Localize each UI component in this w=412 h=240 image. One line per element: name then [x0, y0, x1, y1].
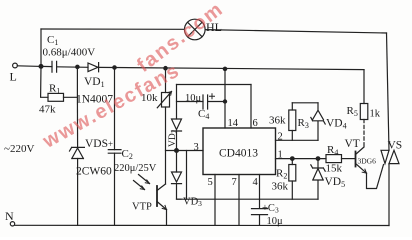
- zener VDS: [70, 147, 85, 158]
- node junction top-left: [39, 65, 43, 69]
- svg-text:6: 6: [253, 118, 258, 129]
- label pin14: [228, 118, 239, 129]
- wire pot upper: [165, 68, 167, 92]
- wire pin3 horizontal: [166, 150, 204, 152]
- svg-text:36k: 36k: [272, 181, 289, 193]
- capacitor C1: [52, 61, 57, 72]
- label pin3: [194, 142, 199, 153]
- svg-text:1: 1: [278, 150, 283, 161]
- label 1k: [370, 109, 381, 120]
- wire riser x186: [186, 151, 188, 200]
- svg-text:VS: VS: [388, 140, 403, 152]
- label 36k R2: [272, 181, 289, 193]
- label VDS type: [76, 166, 112, 178]
- label C4: [198, 108, 209, 121]
- wire C4 right: [208, 101, 225, 103]
- label VD1: [84, 76, 105, 89]
- wire pin14 vertical: [224, 69, 226, 128]
- label VDS: [85, 138, 108, 150]
- svg-text:~220V: ~220V: [4, 143, 34, 155]
- label C1: [47, 34, 58, 47]
- potentiometer 10k: [157, 92, 171, 108]
- wire C2 upper: [114, 68, 116, 150]
- node rail/C2: [113, 66, 116, 69]
- wire main rail seg2: [57, 66, 88, 69]
- svg-text:0.68μ/400V: 0.68μ/400V: [43, 47, 96, 59]
- label CD4013: [219, 148, 258, 160]
- wire VD2 to junction: [176, 131, 178, 151]
- svg-text:3: 3: [194, 142, 199, 153]
- op-amp U1 CD4013: [203, 128, 276, 175]
- terminal N: [10, 222, 14, 226]
- label R1 value: [39, 104, 56, 116]
- phototransistor VTP: [157, 184, 167, 225]
- diode VD2: [172, 119, 182, 131]
- node rail/pin14: [223, 67, 226, 70]
- svg-text:R1: R1: [49, 83, 60, 96]
- svg-text:+C3: +C3: [262, 203, 279, 215]
- svg-text:3DG6: 3DG6: [358, 157, 377, 166]
- svg-text:R5: R5: [347, 105, 358, 118]
- wire R5 to collector dashed: [363, 120, 365, 148]
- label pin1: [278, 150, 283, 161]
- svg-text:220μ/25V: 220μ/25V: [114, 163, 157, 174]
- svg-text:14: 14: [228, 118, 239, 129]
- wire top line y84: [177, 84, 252, 86]
- thyristor VS: [381, 150, 399, 163]
- svg-text:4: 4: [253, 177, 259, 188]
- wire pin1 line: [276, 158, 327, 160]
- svg-text:+: +: [108, 139, 113, 149]
- wire pot lower / collector riser: [165, 107, 167, 184]
- label ~220V: [4, 143, 34, 155]
- svg-text:7: 7: [232, 177, 237, 188]
- zener VD5: [311, 159, 325, 200]
- wire VD2 upper lead: [176, 85, 178, 120]
- svg-text:10μ: 10μ: [267, 216, 284, 227]
- zener VD4: [311, 103, 325, 141]
- wire C4 left: [177, 101, 204, 103]
- diode VD1: [88, 63, 99, 72]
- wire R4 to base: [342, 158, 356, 160]
- svg-text:C1: C1: [47, 34, 58, 47]
- svg-text:R4: R4: [327, 144, 338, 157]
- label 36k R3: [269, 115, 286, 127]
- resistor R3: [289, 110, 296, 131]
- label C2 plus: [108, 139, 113, 149]
- resistor R2: [289, 165, 296, 182]
- wire main rail seg1: [41, 65, 52, 67]
- label R5: [347, 105, 358, 118]
- light arrow 2: [134, 181, 145, 190]
- wire bottom rail: [15, 224, 389, 226]
- label VD1 type: [76, 94, 113, 106]
- label C2: [122, 148, 133, 161]
- svg-text:R2: R2: [276, 168, 287, 181]
- wire top rail left of lamp: [41, 28, 185, 30]
- svg-text:CD4013: CD4013: [219, 148, 258, 160]
- label R2: [276, 168, 287, 181]
- svg-text:VD3: VD3: [183, 197, 202, 209]
- wire C2 lower: [114, 153, 116, 225]
- label C3: [262, 203, 279, 215]
- capacitor C3: [252, 199, 268, 225]
- wire right rail lower: [388, 164, 390, 226]
- wire R2 top lead: [291, 159, 293, 165]
- wire R1 branch left: [41, 66, 48, 97]
- svg-text:2: 2: [278, 132, 283, 143]
- svg-text:47k: 47k: [39, 104, 56, 116]
- svg-text:R3: R3: [298, 117, 309, 130]
- svg-text:VTP: VTP: [132, 202, 152, 213]
- svg-text:5: 5: [208, 177, 213, 188]
- svg-text:VD1: VD1: [84, 76, 105, 89]
- resistor R1: [48, 93, 64, 101]
- capacitor C4: [203, 94, 215, 109]
- wire VD3 to bus: [177, 184, 182, 200]
- label R3: [298, 117, 309, 130]
- wire right rail upper: [387, 33, 390, 150]
- wire pin6 vertical: [250, 85, 252, 129]
- svg-text:L: L: [10, 70, 17, 84]
- wire pin5 stub: [214, 175, 216, 226]
- svg-text:36k: 36k: [269, 115, 286, 127]
- label C3 value: [267, 216, 284, 227]
- label 10u C4: [185, 93, 202, 104]
- label 10k: [141, 92, 158, 104]
- lamp HL: [185, 19, 206, 40]
- svg-text:VDS: VDS: [85, 138, 108, 150]
- wire main rail seg3: [99, 67, 364, 69]
- terminal L: [13, 63, 18, 68]
- node C4/pin14: [223, 100, 226, 103]
- label pin6: [253, 118, 258, 129]
- light arrow 1: [139, 175, 150, 184]
- wire L to junction: [17, 65, 41, 68]
- svg-text:C4: C4: [198, 108, 209, 121]
- label R1: [49, 83, 60, 96]
- label C1 value: [43, 47, 96, 59]
- label L: [10, 70, 17, 84]
- svg-text:VD5: VD5: [325, 176, 346, 189]
- wire junction to VD3: [176, 151, 178, 173]
- label VD4: [326, 118, 347, 131]
- label HL: [206, 20, 222, 34]
- resistor R4: [326, 155, 342, 163]
- svg-text:VD2: VD2: [168, 129, 179, 147]
- svg-text:15k: 15k: [326, 163, 343, 175]
- capacitor C2: [108, 150, 121, 154]
- label VTP: [132, 202, 152, 213]
- label VT type: [358, 157, 377, 166]
- wire R5 drop from rail: [363, 70, 365, 104]
- wire top rail right of lamp: [205, 30, 386, 33]
- label pin4: [253, 177, 259, 188]
- wire VDS branch lower: [77, 159, 79, 226]
- label VS: [388, 140, 403, 152]
- node pin1/R2: [291, 157, 295, 161]
- label R4: [327, 144, 338, 157]
- wire emitter to gate: [367, 165, 384, 189]
- label VD3: [183, 197, 202, 209]
- svg-text:10μ: 10μ: [185, 93, 202, 104]
- svg-text:C2: C2: [122, 148, 133, 161]
- node pin1/VD5: [316, 157, 320, 161]
- label C2 value: [114, 163, 157, 174]
- svg-text:1k: 1k: [370, 109, 381, 120]
- wire R2 bottom lead: [291, 181, 293, 199]
- wire VDS branch upper: [76, 97, 78, 147]
- svg-text:VD4: VD4: [326, 118, 347, 131]
- label VD5: [325, 176, 346, 189]
- svg-text:2CW60: 2CW60: [76, 166, 112, 178]
- diode VD3: [172, 172, 182, 184]
- label VD2 rotated: [168, 129, 179, 147]
- wire pin2 line: [276, 139, 319, 141]
- label 15k: [326, 163, 343, 175]
- transistor VT: [356, 147, 367, 173]
- watermark fans.com: [133, 0, 228, 78]
- label N: [5, 209, 14, 223]
- node rail/R1: [76, 65, 79, 68]
- label pin2: [278, 132, 283, 143]
- label pin7: [232, 177, 237, 188]
- node rail/pot: [164, 67, 167, 70]
- watermark www.elecfans.com: [39, 59, 184, 153]
- wire pin7 stub: [238, 175, 240, 226]
- wire bus y199: [177, 198, 319, 200]
- svg-text:VT: VT: [345, 138, 360, 150]
- svg-text:N: N: [5, 209, 14, 223]
- node pin3 junction: [175, 149, 179, 153]
- wire vertical to top rail: [40, 29, 42, 66]
- resistor R5: [360, 104, 368, 120]
- wire loop top y103: [292, 102, 318, 104]
- wire R3 bottom lead: [291, 131, 293, 141]
- wire R1 branch right: [64, 67, 78, 97]
- wire R3 top lead: [291, 103, 293, 110]
- label pin5: [208, 177, 213, 188]
- label VT: [345, 138, 360, 150]
- wire pin4 stub: [259, 175, 261, 200]
